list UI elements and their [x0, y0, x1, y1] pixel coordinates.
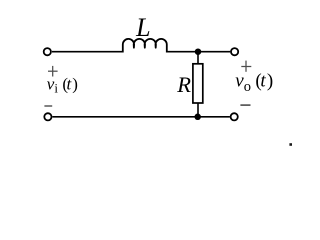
- node: top junction (inductor / resistor / output): [195, 48, 202, 55]
- svg-text:vi(t): vi(t): [47, 75, 78, 96]
- artifact: cropped glyph fragment at right edge: [289, 143, 292, 146]
- terminal: output - (bottom-right open circle): [231, 113, 238, 120]
- wire: resistor bottom stub: [197, 103, 199, 117]
- inductor L: [123, 39, 167, 53]
- wire: resistor top stub: [197, 52, 199, 65]
- wire: bottom rail (input - terminal to output - terminal): [52, 116, 230, 118]
- polarity mark: output plus sign: [241, 61, 251, 72]
- svg-text:R: R: [176, 72, 191, 97]
- wire: top rail, left segment (input + terminal to inductor): [52, 51, 123, 53]
- terminal: output + (top-right open circle): [231, 48, 238, 55]
- polarity mark: output minus sign: [240, 104, 250, 106]
- terminal: input - (bottom-left open circle): [44, 113, 51, 120]
- polarity mark: input plus sign: [48, 66, 58, 77]
- svg-text:L: L: [135, 13, 150, 42]
- svg-text:vo(t): vo(t): [235, 71, 273, 95]
- resistor R (vertical box): [193, 64, 203, 103]
- wire: top rail, right segment (inductor to output + terminal): [167, 51, 231, 53]
- terminal: input + (top-left open circle): [44, 48, 51, 55]
- node: bottom junction (resistor / bottom rail): [194, 114, 201, 121]
- polarity mark: input minus sign: [44, 105, 52, 107]
